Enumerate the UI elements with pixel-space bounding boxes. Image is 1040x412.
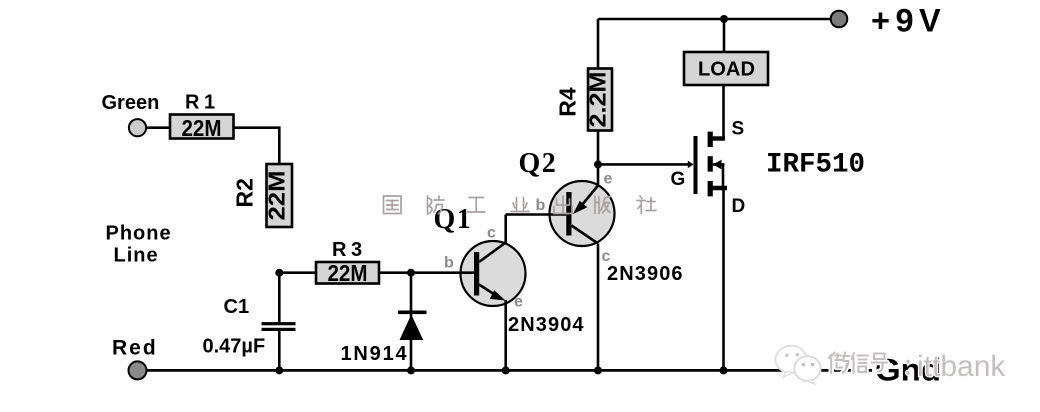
WATERMARKS [384,196,657,214]
Q1 bar [474,252,479,296]
channel segment middle [708,156,713,171]
svg-text:1N914: 1N914 [341,343,409,365]
Q2 bar [566,192,571,236]
svg-text:2N3904: 2N3904 [508,314,585,336]
node R4/gate/Q2e junction [594,160,602,168]
anode triangle [400,315,424,341]
Q2 collector diagonal [572,226,599,244]
capacitor C1 [262,273,296,371]
wire LOAD to MOSFET source [722,85,725,139]
svg-text:e: e [514,294,523,311]
svg-text:e: e [604,171,613,188]
wire node to R3 [279,271,316,274]
svg-text:22M: 22M [182,115,222,141]
svg-text:Phone: Phone [106,223,172,245]
svg-text:Red: Red [112,337,158,360]
node top-rail/LOAD junction [720,15,728,23]
wire Q2 collector to ground rail [597,244,600,371]
svg-text:LOAD: LOAD [698,59,755,81]
svg-text:Q1: Q1 [434,204,473,235]
wechat icon bubbles [776,346,821,384]
svg-text:22M: 22M [264,171,290,221]
body to drain vertical [722,165,725,189]
wire R3 to node [379,271,411,274]
node C1/rail [275,366,283,374]
svg-text:+9V: +9V [871,3,946,39]
wire +9V rail to LOAD [723,19,726,52]
watermark char gong [468,198,486,213]
wire MOSFET drain to ground rail [722,188,725,370]
wire R2 top to R1 corner [234,128,280,164]
watermark char guo [384,196,402,214]
cathode bar [398,311,427,315]
svg-text:R3: R3 [332,239,367,261]
svg-text:22M: 22M [328,260,368,286]
transistor Q2 2N3906 [550,181,615,246]
diode D1 1N914 [398,273,427,371]
watermark char she [637,196,656,214]
svg-text:R1: R1 [185,92,220,114]
channel segment top [708,132,713,147]
Q1 emitter arrowhead [490,290,506,300]
Q1 emitter diagonal [479,285,500,299]
svg-text:2.2M: 2.2M [585,72,611,128]
watermark weixinhao [829,350,1006,383]
node drain/rail [720,366,728,374]
svg-text:Green: Green [102,92,160,114]
terminal Green [129,119,146,136]
node Q2c/rail [594,366,602,374]
wire Q2 base from Q1 collector [506,213,567,216]
drain lead [710,186,727,190]
resistor R2 box [267,164,293,227]
terminal Red [129,361,147,379]
node diode/rail [407,366,415,374]
svg-text:2N3906: 2N3906 [607,263,684,285]
watermark char chu [554,196,572,214]
resistor R3 box [316,262,379,284]
Q1 collector diagonal [479,243,506,263]
wire top rail down to R4 [597,19,600,69]
svg-text:b: b [536,197,546,214]
watermark char fang [428,196,445,214]
watermark char ye [511,198,529,212]
body lead with arrow [713,163,725,166]
svg-text:S: S [732,119,745,140]
wire gate to node [598,163,689,166]
svg-text:c: c [487,225,496,242]
svg-text:Line: Line [114,245,159,267]
wire Q1 emitter to ground rail [504,300,507,370]
svg-text:0.47µF: 0.47µF [203,336,266,358]
resistor R4 box [588,69,612,131]
channel segment bottom [708,181,713,196]
svg-text:G: G [671,169,686,190]
wire Q1 base [411,271,474,274]
Q2 emitter diagonal [577,186,598,212]
wire Green terminal to R1 [146,126,170,129]
wire top rail +9V [598,18,840,21]
node R2 bottom / C1 top [275,269,283,277]
transistor Q1 2N3904 [461,241,526,306]
Q2 emitter arrowhead [573,201,587,214]
resistor R1 box [170,115,234,139]
svg-text:b: b [444,255,454,272]
svg-text:D: D [732,196,746,217]
gate arrowhead [688,161,694,169]
source lead [710,136,725,140]
node R3 right / diode top [407,269,415,277]
svg-text:R4: R4 [555,87,581,117]
load LOAD box [684,52,768,85]
wire R4 to node [597,131,600,165]
svg-text:ittbank: ittbank [917,350,1006,383]
svg-text:IRF510: IRF510 [766,150,865,181]
transistor U1 MOSFET IRF510 [688,132,727,197]
ground rail [138,369,873,372]
wire node down to Q2 emitter [597,164,600,186]
svg-text:C1: C1 [224,296,250,318]
terminal +9V [831,11,848,28]
watermark char ban [595,197,611,214]
svg-text:R2: R2 [232,178,258,207]
svg-text:Q2: Q2 [519,148,558,179]
node Q1e/rail [502,366,510,374]
gate bar [694,136,698,194]
